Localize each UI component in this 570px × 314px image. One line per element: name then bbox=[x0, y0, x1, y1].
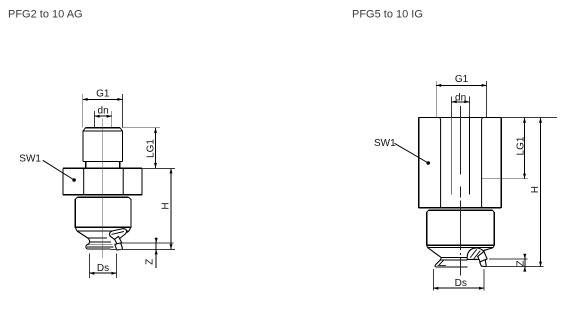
svg-text:Ds: Ds bbox=[97, 263, 109, 274]
svg-text:H: H bbox=[530, 186, 541, 193]
svg-text:dn: dn bbox=[455, 93, 466, 104]
svg-text:PFG5 to 10 IG: PFG5 to 10 IG bbox=[352, 9, 423, 21]
svg-text:Ds: Ds bbox=[455, 278, 467, 289]
svg-text:H: H bbox=[160, 202, 171, 209]
svg-text:PFG2 to 10 AG: PFG2 to 10 AG bbox=[8, 9, 83, 21]
svg-text:G1: G1 bbox=[96, 89, 110, 100]
svg-text:LG1: LG1 bbox=[146, 139, 157, 158]
svg-text:SW1: SW1 bbox=[19, 154, 41, 165]
svg-text:G1: G1 bbox=[455, 74, 469, 85]
svg-text:LG1: LG1 bbox=[515, 136, 526, 155]
svg-text:Z: Z bbox=[145, 259, 156, 265]
svg-text:Z: Z bbox=[515, 260, 526, 266]
svg-text:dn: dn bbox=[98, 106, 109, 117]
svg-text:SW1: SW1 bbox=[374, 138, 396, 149]
